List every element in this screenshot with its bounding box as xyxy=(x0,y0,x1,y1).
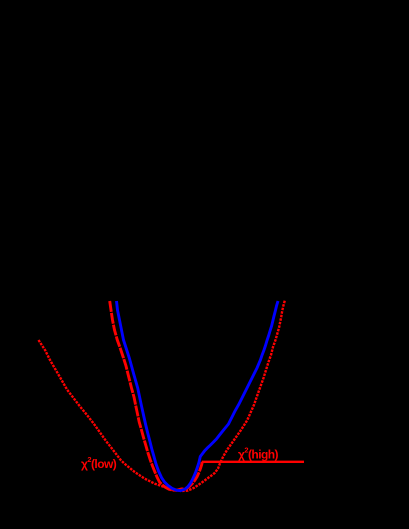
blue solid chi-squared curve with kink on right branch xyxy=(117,301,279,491)
narrow red dotted curve: chi2(high) curve, flattens into horizontal level line xyxy=(110,301,203,490)
horizontal red line at chi2(high) level xyxy=(202,461,304,463)
wide red dotted parabola: chi2(low) curve xyxy=(39,301,285,492)
svg-text:χ2(high): χ2(high) xyxy=(238,446,279,462)
svg-text:χ2(low): χ2(low) xyxy=(81,455,117,471)
